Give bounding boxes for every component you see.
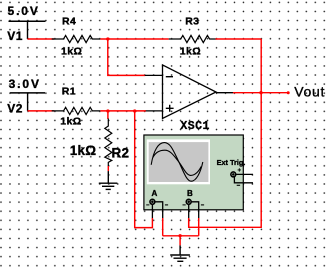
- wire minus bus to ground: [163, 235, 199, 237]
- svg-text:R2: R2: [112, 145, 130, 160]
- op-amp U1 triangle: [163, 65, 217, 119]
- wire scope B minus down: [198, 218, 200, 236]
- wire V2 to R1: [28, 110, 55, 112]
- svg-text:V2: V2: [7, 101, 23, 115]
- pin stub op-amp non-inverting input: [146, 110, 163, 112]
- svg-text:R3: R3: [185, 16, 199, 28]
- wire ground drop: [179, 236, 181, 246]
- svg-text:1kΩ: 1kΩ: [180, 45, 201, 57]
- resistor R2 body (vertical): [105, 119, 112, 167]
- wire scope A minus down: [162, 218, 164, 236]
- junction dot output node: [259, 91, 262, 94]
- wire node N1: R4 right to R3 left: [100, 38, 168, 40]
- wire riser output down to scope B: [189, 93, 262, 228]
- scope Ext Trig minus pin: [234, 177, 253, 183]
- svg-text:R1: R1: [62, 86, 76, 98]
- scope trace channel A (large): [151, 143, 203, 182]
- junction dot N2a (R2 tap): [106, 109, 109, 112]
- wire N1 down to inverting input: [108, 39, 145, 75]
- scope A terminal ring: [150, 199, 155, 204]
- scope B plus mark: [183, 204, 186, 206]
- resistor R1 body: [52, 107, 101, 114]
- wire R2 top: [107, 111, 109, 119]
- pin stub op-amp output: [216, 92, 233, 94]
- junction dot N1: [106, 37, 109, 40]
- oscilloscope XSC1 body: [144, 135, 243, 210]
- wire output to Vout: [233, 92, 288, 94]
- scope Ext Trig minus mark: [237, 184, 240, 186]
- oscilloscope screen white frame: [147, 139, 210, 184]
- source V1 stem: [27, 21, 29, 39]
- scope Ext Trig plus mark: [238, 168, 241, 171]
- svg-text:1kΩ: 1kΩ: [61, 45, 82, 57]
- svg-text:5.0V: 5.0V: [8, 4, 40, 18]
- scope B terminal ring: [186, 199, 191, 204]
- wire scope B plus up to output riser: [188, 218, 190, 227]
- ground under scope: [170, 245, 190, 261]
- junction dot ground node: [178, 234, 181, 237]
- scope Ext Trig terminal ring: [231, 172, 236, 177]
- svg-text:1kΩ: 1kΩ: [60, 115, 81, 127]
- op-amp minus sign: [166, 76, 173, 78]
- wire feedback riser (top): [260, 39, 262, 93]
- wire R1 right to non-inverting input: [100, 110, 146, 112]
- svg-text:XSC1: XSC1: [180, 120, 209, 133]
- wire V1 to R4: [28, 38, 55, 40]
- svg-text:A: A: [152, 189, 158, 198]
- scope A plus pin: [151, 204, 153, 218]
- end dot Vout connector: [287, 91, 290, 94]
- wire R2 bottom: [107, 166, 109, 171]
- wire R3 right to feedback riser: [216, 38, 262, 40]
- svg-text:Ext Trig.: Ext Trig.: [217, 158, 246, 167]
- scope trace channel B (small): [153, 150, 201, 175]
- svg-text:1kΩ: 1kΩ: [70, 143, 96, 158]
- pin stub op-amp inverting input: [145, 74, 163, 76]
- op-amp plus sign: [166, 105, 174, 112]
- scope A plus mark: [146, 204, 149, 206]
- junction dot N2b (scope A tap): [133, 109, 136, 112]
- resistor R3 body: [169, 35, 216, 42]
- svg-text:Vout: Vout: [294, 83, 325, 99]
- source V1 symbol T-bar: [9, 20, 46, 22]
- source V2 stem: [27, 93, 29, 111]
- scope B minus pin: [191, 202, 198, 219]
- svg-text:R4: R4: [62, 16, 76, 28]
- oscilloscope screen: [149, 142, 209, 182]
- scope Ext Trig plus pin: [236, 173, 253, 175]
- resistor R4 body: [52, 35, 101, 42]
- scope B minus mark: [201, 204, 204, 206]
- scope A minus mark: [165, 204, 168, 206]
- svg-text:B: B: [187, 189, 193, 198]
- scope A minus pin: [155, 202, 163, 219]
- source V2 symbol T-bar: [10, 92, 45, 94]
- wire N2 down to scope A plus: [135, 111, 153, 228]
- scope B plus pin: [188, 204, 190, 218]
- svg-text:V1: V1: [7, 29, 23, 43]
- svg-text:3.0V: 3.0V: [9, 77, 41, 91]
- ground under R2: [99, 171, 118, 189]
